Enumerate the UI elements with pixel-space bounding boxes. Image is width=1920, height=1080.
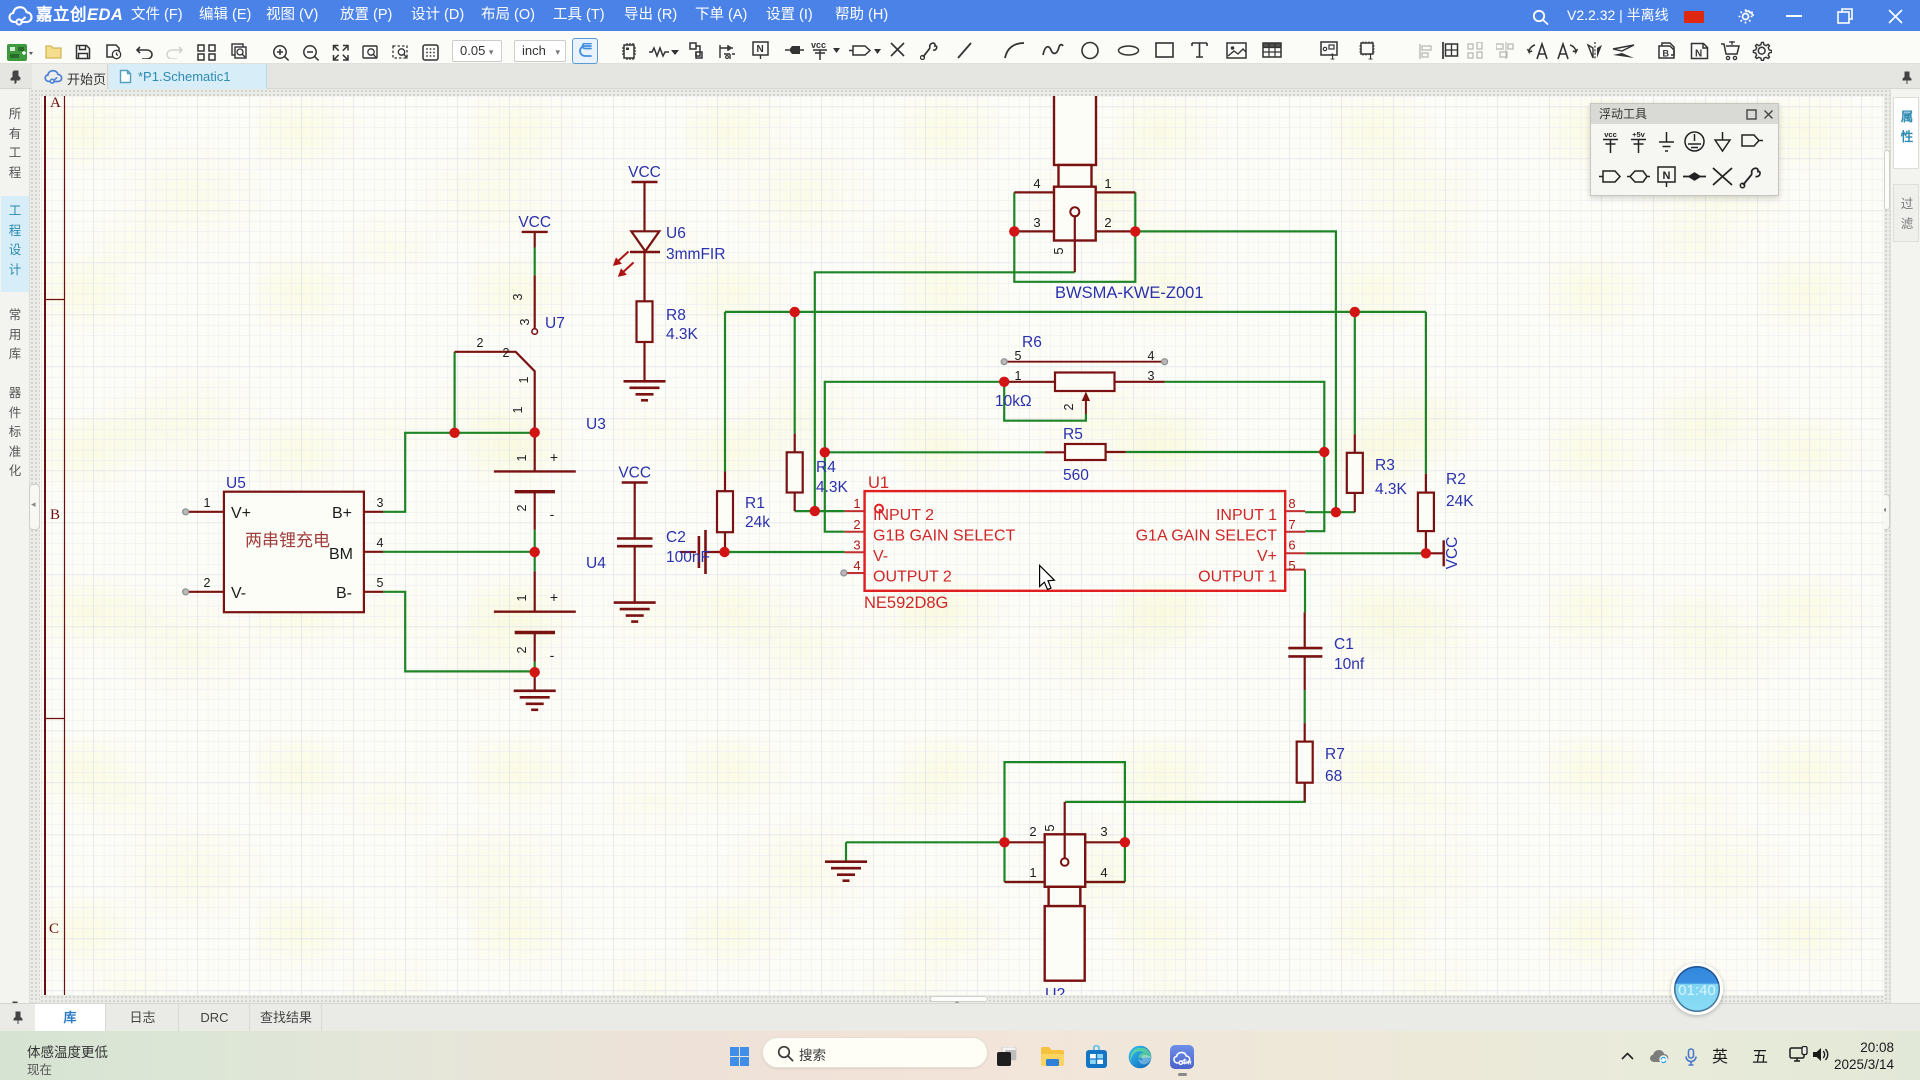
- svg-text:PRO: PRO: [1184, 1061, 1192, 1066]
- potentiometer R6: [1001, 359, 1167, 414]
- battery U4: [494, 571, 576, 690]
- label R8 value 4.3K: [666, 307, 699, 343]
- svg-text:4.3K: 4.3K: [816, 479, 849, 496]
- svg-text:100nF: 100nF: [666, 549, 710, 566]
- IC U5 two-cell li-ion charger: [224, 492, 364, 613]
- svg-text:B: B: [1663, 49, 1670, 59]
- svg-text:VCC: VCC: [518, 214, 551, 231]
- resistor R5: [1045, 444, 1126, 460]
- svg-text:3: 3: [1148, 369, 1155, 383]
- node SMA pin3 junction: [1009, 226, 1019, 236]
- svg-text:VCC: VCC: [628, 164, 661, 181]
- node U2 pin3 junction: [1120, 837, 1130, 847]
- svg-text:U4: U4: [586, 555, 606, 572]
- svg-text:VCC: VCC: [1444, 537, 1461, 570]
- svg-text:+5v: +5v: [1632, 130, 1646, 139]
- label R6 value 10k: [995, 334, 1042, 410]
- node R5 left junction: [820, 447, 830, 457]
- svg-text:U2: U2: [1045, 986, 1066, 995]
- wire C1 to R7: [1304, 690, 1306, 723]
- svg-text:U6: U6: [666, 225, 686, 242]
- label NE592D8G: [864, 594, 948, 612]
- node R3 top junction: [1350, 307, 1360, 317]
- node C2 R1 junction: [719, 547, 729, 557]
- svg-text:5: 5: [1015, 349, 1022, 363]
- svg-text:-: -: [550, 506, 555, 522]
- U2 pin number 3: [1100, 824, 1107, 839]
- label C2 value 100nF: [666, 529, 710, 566]
- label U4: [586, 555, 606, 572]
- wire battery mid green segment: [534, 530, 536, 572]
- U2 pin number 5: [1042, 824, 1057, 831]
- svg-text:U1: U1: [868, 474, 889, 492]
- U1 pin number 1: [853, 496, 860, 511]
- U1 pin name OUTPUT 1: [1198, 569, 1277, 586]
- wire U1 pin6 to R2/VCC: [1305, 552, 1426, 554]
- svg-text:N: N: [1695, 49, 1702, 60]
- R6 pin number 2: [1062, 403, 1076, 410]
- label R7 value 68: [1325, 746, 1345, 785]
- U4 pin 2 and polarity: [515, 646, 555, 663]
- wire R1 top riser: [724, 312, 726, 472]
- jumper U7: [455, 275, 538, 432]
- svg-text:8: 8: [1288, 496, 1295, 511]
- U3 pin 1 and polarity: [515, 449, 558, 465]
- svg-text:1: 1: [511, 406, 525, 413]
- capacitor C1: [1288, 612, 1322, 690]
- SMA top pin number 2: [1104, 215, 1111, 230]
- wire R7 bottom to U2 pin5: [1065, 783, 1305, 802]
- svg-text:10nf: 10nf: [1334, 656, 1365, 673]
- node R5 right junction: [1319, 447, 1329, 457]
- svg-text:R6: R6: [1022, 334, 1042, 351]
- U1 pin name G1B GAIN SELECT: [873, 528, 1015, 545]
- U2 pin number 2: [1029, 824, 1036, 839]
- svg-text:2: 2: [1104, 215, 1111, 230]
- svg-text:3: 3: [1100, 824, 1107, 839]
- wire R6 wiper pin2: [1004, 382, 1086, 421]
- svg-text:1: 1: [853, 496, 860, 511]
- svg-text:G1A GAIN SELECT: G1A GAIN SELECT: [1136, 528, 1278, 545]
- svg-text:1: 1: [515, 454, 529, 461]
- svg-text:1: 1: [515, 594, 529, 601]
- wire C2/R1 to U1 pin3: [725, 551, 845, 553]
- VCC symbol right of R2 (rotated): [1426, 537, 1461, 570]
- svg-text:5: 5: [377, 576, 384, 590]
- svg-text:7: 7: [1288, 517, 1295, 532]
- U1 pin number 7: [1288, 517, 1295, 532]
- node U7 pin2 junction: [449, 428, 459, 438]
- wire SMA ground loop: [1014, 192, 1135, 281]
- wire U5 B- to battery bottom: [383, 592, 535, 672]
- node battery mid junction: [530, 547, 540, 557]
- SMA connector U2 bottom: [1005, 802, 1125, 981]
- wire U7 VCC green segment: [534, 248, 536, 276]
- U5 pin 4 BM: [329, 536, 384, 563]
- U1 pin name V+: [1257, 548, 1277, 565]
- svg-text:3: 3: [377, 496, 384, 510]
- svg-text:6: 6: [1288, 538, 1295, 553]
- label R3 value 4.3K: [1375, 457, 1408, 498]
- svg-text:R5: R5: [1063, 426, 1083, 443]
- svg-text:5: 5: [1051, 247, 1066, 254]
- IC U1 NE592D8G selected: [841, 491, 1305, 591]
- svg-text:A: A: [50, 96, 61, 111]
- wire U7 pin2 branch: [454, 352, 456, 433]
- svg-text:INPUT 2: INPUT 2: [873, 507, 934, 524]
- frame zone label A: [50, 95, 61, 111]
- R6 pin number 3: [1148, 369, 1155, 383]
- svg-text:R8: R8: [666, 307, 686, 324]
- wire SMA pin2 down to pin8 net: [1135, 231, 1336, 512]
- SMA top pin number 1: [1104, 176, 1111, 191]
- svg-text:OUTPUT 1: OUTPUT 1: [1198, 569, 1277, 586]
- U5 pin 3 B+: [332, 496, 384, 522]
- svg-text:N: N: [1663, 170, 1671, 182]
- svg-text:24k: 24k: [745, 514, 770, 531]
- VCC symbol above U4 decoupling cap: [618, 465, 651, 483]
- svg-text:R3: R3: [1375, 457, 1395, 474]
- svg-text:G1B GAIN SELECT: G1B GAIN SELECT: [873, 528, 1015, 545]
- wire R2 top riser: [1425, 312, 1427, 474]
- svg-text:BM: BM: [329, 546, 353, 563]
- timer widget: [1671, 963, 1723, 1015]
- wire R4 top riser: [794, 312, 796, 434]
- sheet frame border lines: [45, 96, 65, 995]
- svg-text:4.3K: 4.3K: [1375, 481, 1408, 498]
- svg-text:C: C: [49, 921, 59, 937]
- svg-text:4: 4: [1033, 176, 1040, 191]
- wire U1 pin5 to C1: [1304, 570, 1306, 613]
- svg-text:2: 2: [515, 646, 529, 653]
- U1 pin number 6: [1288, 538, 1295, 553]
- node SMA pin2 junction: [1130, 226, 1140, 236]
- svg-text:560: 560: [1063, 467, 1089, 484]
- node R2 VCC junction: [1421, 548, 1431, 558]
- U1 pin name INPUT 2: [873, 507, 934, 524]
- svg-text:R2: R2: [1446, 471, 1466, 488]
- VCC symbol above U7: [518, 214, 551, 248]
- svg-text:1: 1: [1104, 176, 1111, 191]
- frame zone label C: [49, 921, 59, 937]
- svg-text:4: 4: [1148, 349, 1155, 363]
- svg-text:10kΩ: 10kΩ: [995, 393, 1032, 410]
- label U7: [545, 315, 565, 332]
- label U6 3mmFIR: [666, 225, 725, 263]
- U1 pin name OUTPUT 2: [873, 569, 952, 586]
- U1 pin number 5: [1288, 558, 1295, 573]
- svg-text:3: 3: [1033, 215, 1040, 230]
- svg-text:V-: V-: [873, 548, 888, 565]
- SMA top pin number 5: [1051, 247, 1066, 254]
- label C1 value 10nf: [1334, 636, 1365, 673]
- U1 pin number 8: [1288, 496, 1295, 511]
- canvas scroll strips: [30, 89, 40, 1003]
- resistor R1: [717, 472, 733, 553]
- U5 chinese label: [245, 531, 330, 550]
- wire battery bottom green segment: [534, 662, 536, 673]
- R6 pin number 4: [1148, 349, 1155, 363]
- wire R3 top riser: [1354, 312, 1356, 434]
- node U1 pin8 junction: [1331, 507, 1341, 517]
- svg-text:BWSMA-KWE-Z001: BWSMA-KWE-Z001: [1055, 284, 1204, 302]
- mouse cursor: [1040, 566, 1055, 590]
- svg-text:4: 4: [1100, 865, 1107, 880]
- U1 pin name V-: [873, 548, 888, 565]
- svg-text:R7: R7: [1325, 746, 1345, 763]
- label U3: [586, 416, 606, 433]
- label R2 value 24K: [1446, 471, 1474, 510]
- svg-text:C1: C1: [1334, 636, 1354, 653]
- ground below R8: [624, 381, 666, 400]
- node battery bottom junction: [530, 667, 540, 677]
- ground left of U2: [825, 862, 867, 881]
- U3 pin 2 and polarity: [515, 504, 555, 522]
- svg-text:R4: R4: [816, 459, 836, 476]
- svg-text:vcc: vcc: [811, 40, 826, 50]
- U4 pin 1 and polarity: [515, 589, 558, 605]
- svg-text:VCC: VCC: [618, 465, 651, 482]
- resistor R4: [787, 434, 803, 512]
- svg-text:5: 5: [1288, 558, 1295, 573]
- R6 pin number 5: [1015, 349, 1022, 363]
- node U2 pin2 junction: [999, 837, 1009, 847]
- svg-text:OUTPUT 2: OUTPUT 2: [873, 569, 952, 586]
- svg-text:V+: V+: [1257, 548, 1277, 565]
- svg-text:3: 3: [853, 538, 860, 553]
- resistor R8: [637, 252, 653, 381]
- svg-text:68: 68: [1325, 768, 1342, 785]
- label BWSMA-KWE-Z001: [1055, 284, 1204, 302]
- svg-text:2: 2: [515, 504, 529, 511]
- U7 pin number 3: [511, 293, 532, 325]
- label U1: [868, 474, 889, 492]
- svg-text:2: 2: [477, 336, 484, 350]
- capacitor C2: [680, 530, 725, 574]
- node battery top junction: [530, 427, 540, 437]
- svg-text:1: 1: [204, 496, 211, 510]
- floating tool palette: [1590, 103, 1779, 196]
- svg-text:-: -: [550, 647, 555, 663]
- node R4 top junction: [790, 307, 800, 317]
- U7 pin number 2: [477, 336, 510, 360]
- U1 pin name G1A GAIN SELECT: [1136, 528, 1278, 545]
- svg-text:3: 3: [518, 318, 532, 325]
- VCC symbol above U6 LED: [628, 164, 661, 182]
- R6 pin number 1: [1015, 369, 1022, 383]
- svg-text:NE592D8G: NE592D8G: [864, 594, 948, 612]
- svg-text:vcc: vcc: [1604, 130, 1617, 139]
- ground below decoupling capacitor: [614, 603, 656, 622]
- decoupling capacitor near U4: [617, 483, 653, 603]
- svg-text:3mmFIR: 3mmFIR: [666, 246, 725, 263]
- svg-text:1: 1: [1015, 369, 1022, 383]
- wire R5 right lead net: [1126, 451, 1325, 453]
- U2 pin number 1: [1029, 865, 1036, 880]
- svg-text:4: 4: [853, 558, 860, 573]
- resistor R3: [1347, 434, 1363, 512]
- svg-text:2: 2: [503, 346, 510, 360]
- wire U1 pin8 to R3 bottom: [1305, 511, 1355, 513]
- wire U2 ground loop rectangle: [1005, 762, 1125, 882]
- label R1 value 24k: [745, 495, 770, 531]
- wire R5 left lead net: [825, 451, 1045, 453]
- label R4 value 4.3K: [816, 459, 849, 496]
- svg-text:24K: 24K: [1446, 493, 1474, 510]
- svg-text:B-: B-: [336, 585, 352, 602]
- node R6 pin1 junction: [999, 377, 1009, 387]
- label U5: [226, 475, 246, 492]
- svg-text:INPUT 1: INPUT 1: [1216, 507, 1277, 524]
- label U2: [1045, 986, 1066, 1003]
- U1 pin number 3: [853, 538, 860, 553]
- svg-text:B+: B+: [332, 505, 352, 522]
- svg-text:1: 1: [517, 376, 531, 383]
- U1 pin number 4: [853, 558, 860, 573]
- wire R4 bottom to U1 pin1: [795, 510, 845, 512]
- node U1 pin1 junction: [810, 506, 820, 516]
- svg-text:U7: U7: [545, 315, 565, 332]
- svg-text:U3: U3: [586, 416, 606, 433]
- SMA top pin number 3: [1033, 215, 1040, 230]
- svg-text:+: +: [550, 589, 558, 605]
- svg-text:2: 2: [1029, 824, 1036, 839]
- wire SMA pin5 to U1 pin1: [815, 272, 1075, 511]
- svg-text:1: 1: [1368, 52, 1373, 61]
- resistor R7: [1297, 723, 1313, 802]
- wire U1 pin2 to R6 pin1: [825, 382, 1004, 532]
- LED U6: [613, 182, 660, 277]
- U2 pin number 4: [1100, 865, 1107, 880]
- wire U5 BM to battery mid: [383, 551, 535, 553]
- U5 pin 1 V+: [183, 496, 251, 522]
- svg-text:4.3K: 4.3K: [666, 326, 699, 343]
- SMA top pin number 4: [1033, 176, 1040, 191]
- label R5 value 560: [1063, 426, 1089, 484]
- svg-text:+: +: [550, 449, 558, 465]
- SMA connector BWSMA top: [1014, 90, 1135, 272]
- frame zone label B: [50, 507, 60, 523]
- resistor R2: [1418, 474, 1434, 554]
- U5 pin 5 B-: [336, 576, 384, 602]
- svg-text:C2: C2: [666, 529, 686, 546]
- svg-text:2: 2: [204, 576, 211, 590]
- wire U5 B+ to battery top: [383, 433, 535, 512]
- svg-text:5: 5: [1042, 824, 1057, 831]
- svg-text:1: 1: [1330, 52, 1335, 61]
- svg-text:1: 1: [1029, 865, 1036, 880]
- svg-text:R1: R1: [745, 495, 765, 512]
- U1 pin name INPUT 1: [1216, 507, 1277, 524]
- U7 pin number 1: [511, 376, 531, 413]
- battery U3: [494, 433, 576, 530]
- ground below battery stack: [514, 691, 556, 710]
- wire U2 pin2 to ground: [846, 842, 1005, 861]
- svg-text:V-: V-: [231, 585, 246, 602]
- svg-text:V+: V+: [231, 505, 251, 522]
- svg-text:2: 2: [1062, 403, 1076, 410]
- wire R6 pin3 to U1 pin7: [1165, 382, 1325, 531]
- wire net VCC-top horizontal rail y=312: [725, 311, 1426, 313]
- svg-text:N: N: [757, 44, 764, 55]
- U1 pin number 2: [853, 517, 860, 532]
- svg-text:U5: U5: [226, 475, 246, 492]
- svg-text:4: 4: [377, 536, 384, 550]
- taskbar: [0, 1031, 1920, 1080]
- svg-text:3: 3: [511, 293, 525, 300]
- svg-text:两串锂充电: 两串锂充电: [245, 531, 330, 550]
- U5 pin 2 V-: [183, 576, 247, 602]
- svg-text:2: 2: [853, 517, 860, 532]
- svg-text:B: B: [50, 507, 60, 523]
